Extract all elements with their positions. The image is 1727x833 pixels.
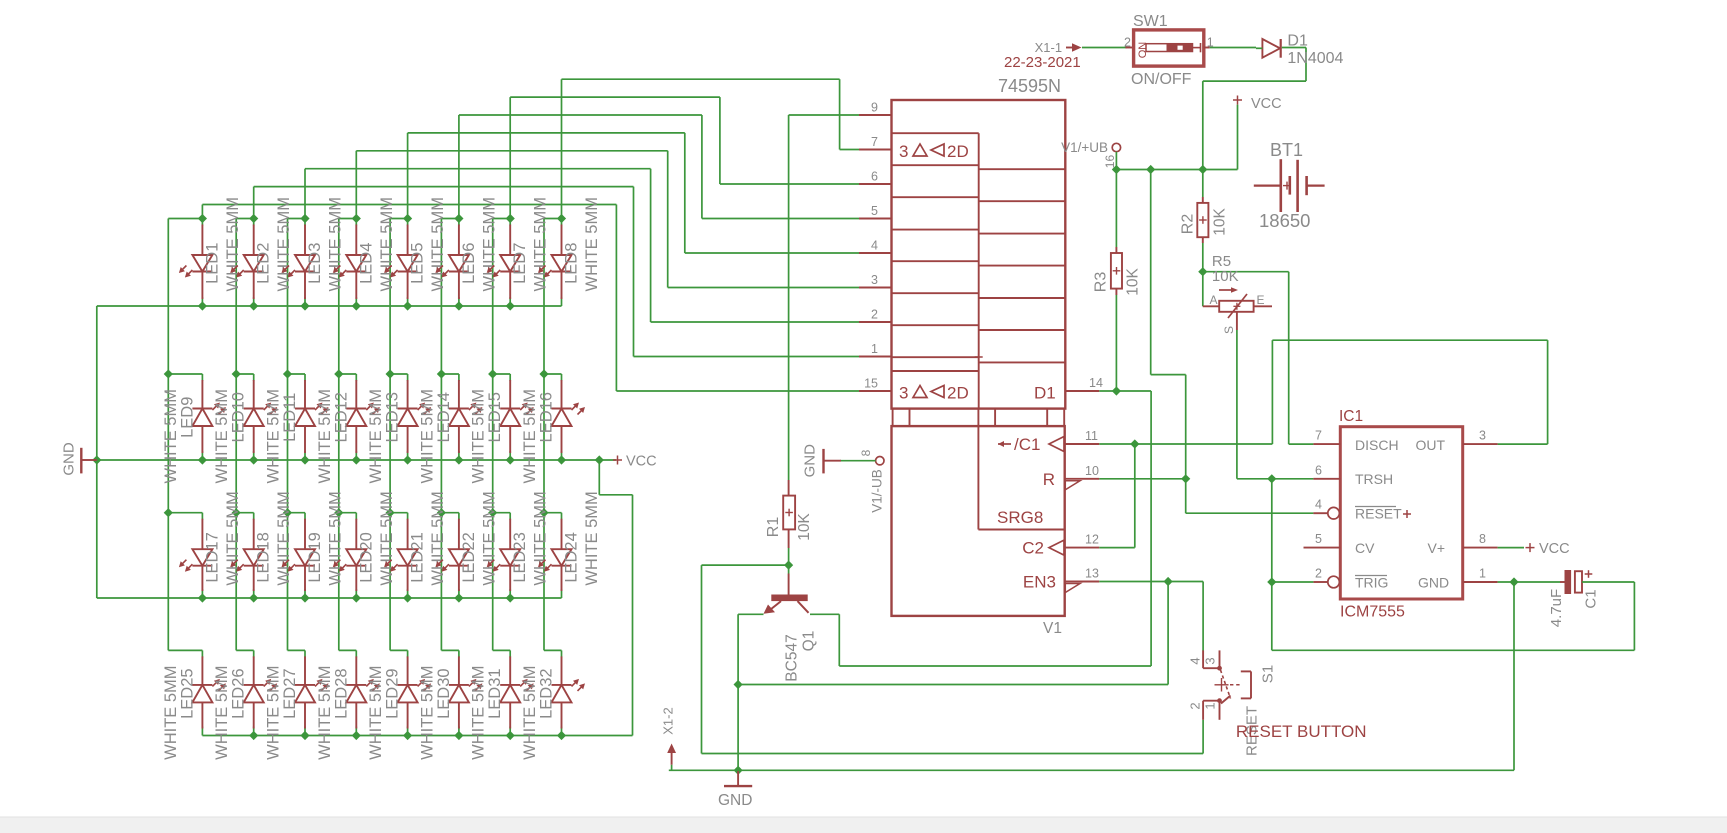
svg-text:Q1: Q1: [801, 631, 818, 652]
svg-text:3: 3: [871, 273, 878, 287]
svg-text:WHITE 5MM: WHITE 5MM: [470, 389, 488, 483]
svg-text:SRG8: SRG8: [997, 508, 1043, 527]
svg-text:2: 2: [1315, 567, 1322, 581]
svg-text:C1: C1: [1583, 589, 1600, 608]
svg-text:BT1: BT1: [1270, 140, 1303, 160]
svg-text:LED18: LED18: [255, 532, 273, 582]
svg-text:22-23-2021: 22-23-2021: [1004, 54, 1081, 71]
svg-text:WHITE 5MM: WHITE 5MM: [583, 197, 601, 291]
svg-text:2D: 2D: [947, 384, 969, 403]
svg-text:WHITE 5MM: WHITE 5MM: [162, 665, 180, 759]
svg-text:74595N: 74595N: [998, 76, 1061, 96]
svg-text:CV: CV: [1355, 540, 1375, 556]
svg-text:6: 6: [1315, 463, 1322, 477]
svg-text:LED19: LED19: [306, 532, 324, 582]
svg-text:13: 13: [1085, 567, 1099, 581]
svg-text:WHITE 5MM: WHITE 5MM: [418, 389, 436, 483]
svg-text:10: 10: [1085, 464, 1099, 478]
svg-text:WHITE 5MM: WHITE 5MM: [532, 491, 550, 585]
svg-text:X1-1: X1-1: [1035, 40, 1062, 55]
svg-text:EN3: EN3: [1023, 573, 1056, 592]
svg-text:RESET: RESET: [1355, 506, 1402, 522]
svg-text:4.7uF: 4.7uF: [1548, 589, 1565, 627]
svg-text:LED8: LED8: [563, 243, 581, 284]
svg-text:2: 2: [1188, 702, 1203, 709]
svg-text:12: 12: [1085, 533, 1099, 547]
svg-text:1: 1: [1479, 567, 1486, 581]
svg-text:1: 1: [871, 342, 878, 356]
svg-text:WHITE 5MM: WHITE 5MM: [521, 389, 539, 483]
svg-text:LED26: LED26: [230, 668, 248, 718]
svg-text:15: 15: [864, 377, 878, 391]
svg-text:WHITE 5MM: WHITE 5MM: [367, 665, 385, 759]
svg-text:S1: S1: [1260, 665, 1277, 683]
svg-text:3: 3: [1203, 657, 1218, 664]
svg-text:LED24: LED24: [563, 532, 581, 582]
svg-text:V1/-UB: V1/-UB: [870, 469, 885, 513]
svg-text:LED31: LED31: [486, 668, 504, 718]
svg-text:18650: 18650: [1259, 210, 1310, 231]
svg-text:WHITE 5MM: WHITE 5MM: [521, 665, 539, 759]
svg-text:S: S: [1222, 326, 1236, 334]
svg-text:8: 8: [1479, 532, 1486, 546]
svg-text:VCC: VCC: [1251, 96, 1282, 112]
svg-text:WHITE 5MM: WHITE 5MM: [480, 197, 498, 291]
svg-text:V1/+UB: V1/+UB: [1061, 140, 1108, 155]
svg-text:LED15: LED15: [486, 392, 504, 442]
svg-text:LED9: LED9: [178, 397, 196, 438]
svg-text:TRSH: TRSH: [1355, 471, 1393, 487]
svg-text:LED7: LED7: [511, 243, 529, 284]
svg-text:WHITE 5MM: WHITE 5MM: [213, 665, 231, 759]
svg-text:3: 3: [899, 384, 908, 403]
svg-text:6: 6: [871, 170, 878, 184]
svg-text:/C1: /C1: [1014, 435, 1040, 454]
svg-text:V1: V1: [1043, 620, 1062, 637]
svg-text:LED11: LED11: [281, 393, 299, 442]
svg-text:3: 3: [899, 142, 908, 161]
svg-text:A: A: [1210, 293, 1218, 307]
svg-text:LED23: LED23: [511, 532, 529, 582]
svg-text:8: 8: [859, 449, 873, 456]
svg-text:1N4004: 1N4004: [1287, 50, 1343, 67]
svg-text:3: 3: [1479, 429, 1486, 443]
svg-text:WHITE 5MM: WHITE 5MM: [327, 197, 345, 291]
svg-text:WHITE 5MM: WHITE 5MM: [583, 491, 601, 585]
svg-text:7: 7: [871, 135, 878, 149]
svg-text:RESET BUTTON: RESET BUTTON: [1236, 722, 1367, 741]
svg-text:OUT: OUT: [1415, 437, 1445, 453]
svg-text:LED1: LED1: [203, 243, 221, 284]
svg-text:LED30: LED30: [435, 668, 453, 718]
svg-text:4: 4: [1315, 498, 1322, 512]
svg-text:LED16: LED16: [538, 392, 556, 442]
svg-text:GND: GND: [802, 444, 819, 478]
svg-text:WHITE 5MM: WHITE 5MM: [275, 491, 293, 585]
svg-text:C2: C2: [1022, 539, 1044, 558]
svg-text:BC547: BC547: [784, 634, 801, 681]
svg-text:WHITE 5MM: WHITE 5MM: [213, 389, 231, 483]
svg-text:WHITE 5MM: WHITE 5MM: [532, 197, 550, 291]
svg-text:SW1: SW1: [1133, 13, 1168, 30]
svg-text:1: 1: [1203, 702, 1218, 709]
svg-text:WHITE 5MM: WHITE 5MM: [316, 389, 334, 483]
svg-text:WHITE 5MM: WHITE 5MM: [316, 665, 334, 759]
svg-text:LED27: LED27: [281, 668, 299, 718]
svg-text:WHITE 5MM: WHITE 5MM: [275, 197, 293, 291]
svg-text:WHITE 5MM: WHITE 5MM: [327, 491, 345, 585]
svg-text:IC1: IC1: [1339, 408, 1363, 425]
svg-text:GND: GND: [60, 442, 77, 476]
svg-text:LED21: LED21: [409, 532, 427, 582]
svg-text:WHITE 5MM: WHITE 5MM: [378, 197, 396, 291]
svg-text:V+: V+: [1427, 540, 1445, 556]
svg-text:R2: R2: [1180, 214, 1197, 235]
svg-text:14: 14: [1089, 376, 1103, 390]
svg-text:16: 16: [1103, 155, 1117, 169]
svg-text:WHITE 5MM: WHITE 5MM: [162, 389, 180, 483]
svg-text:X1-2: X1-2: [661, 707, 676, 734]
svg-text:7: 7: [1315, 429, 1322, 443]
svg-text:10K: 10K: [1212, 268, 1239, 285]
svg-text:9: 9: [871, 101, 878, 115]
svg-text:R1: R1: [765, 517, 782, 538]
svg-text:ICM7555: ICM7555: [1340, 604, 1405, 621]
svg-text:WHITE 5MM: WHITE 5MM: [367, 389, 385, 483]
svg-text:VCC: VCC: [1539, 541, 1570, 557]
svg-text:TRIG: TRIG: [1355, 575, 1388, 591]
svg-text:LED14: LED14: [435, 392, 453, 442]
svg-text:LED5: LED5: [409, 243, 427, 284]
svg-text:LED10: LED10: [230, 392, 248, 442]
svg-text:LED12: LED12: [332, 392, 350, 442]
svg-text:11: 11: [1085, 429, 1098, 443]
svg-text:WHITE 5MM: WHITE 5MM: [265, 389, 283, 483]
svg-text:LED13: LED13: [384, 392, 402, 442]
svg-text:LED32: LED32: [538, 668, 556, 718]
svg-text:WHITE 5MM: WHITE 5MM: [418, 665, 436, 759]
svg-text:10K: 10K: [1125, 268, 1142, 296]
svg-text:10K: 10K: [796, 513, 813, 541]
svg-text:WHITE 5MM: WHITE 5MM: [470, 665, 488, 759]
svg-text:GND: GND: [1418, 575, 1449, 591]
svg-text:WHITE 5MM: WHITE 5MM: [378, 491, 396, 585]
svg-text:10K: 10K: [1212, 208, 1229, 236]
svg-text:LED2: LED2: [255, 243, 273, 284]
svg-text:LED3: LED3: [306, 243, 324, 284]
svg-text:4: 4: [1188, 657, 1203, 664]
svg-text:GND: GND: [718, 792, 752, 809]
svg-text:WHITE 5MM: WHITE 5MM: [224, 491, 242, 585]
svg-text:4: 4: [871, 239, 878, 253]
svg-text:DISCH: DISCH: [1355, 437, 1399, 453]
svg-text:LED17: LED17: [203, 532, 221, 582]
svg-text:WHITE 5MM: WHITE 5MM: [265, 665, 283, 759]
svg-text:E: E: [1257, 293, 1265, 307]
svg-text:5: 5: [871, 204, 878, 218]
svg-text:ON/OFF: ON/OFF: [1131, 71, 1192, 88]
svg-text:WHITE 5MM: WHITE 5MM: [224, 197, 242, 291]
svg-text:5: 5: [1315, 532, 1322, 546]
svg-text:LED4: LED4: [357, 243, 375, 284]
svg-text:WHITE 5MM: WHITE 5MM: [480, 491, 498, 585]
svg-text:LED6: LED6: [460, 243, 478, 284]
svg-text:2: 2: [871, 308, 878, 322]
svg-text:LED29: LED29: [384, 668, 402, 718]
svg-text:LED22: LED22: [460, 532, 478, 582]
svg-text:WHITE 5MM: WHITE 5MM: [429, 197, 447, 291]
svg-text:WHITE 5MM: WHITE 5MM: [429, 491, 447, 585]
svg-text:LED25: LED25: [178, 668, 196, 718]
svg-text:ON: ON: [1137, 42, 1149, 59]
svg-text:D1: D1: [1034, 384, 1056, 403]
svg-text:LED28: LED28: [332, 668, 350, 718]
svg-text:D1: D1: [1287, 33, 1308, 50]
svg-text:2D: 2D: [947, 142, 969, 161]
svg-text:VCC: VCC: [626, 454, 657, 470]
svg-text:R3: R3: [1093, 272, 1110, 293]
svg-text:LED20: LED20: [357, 532, 375, 582]
svg-text:R: R: [1043, 470, 1055, 489]
